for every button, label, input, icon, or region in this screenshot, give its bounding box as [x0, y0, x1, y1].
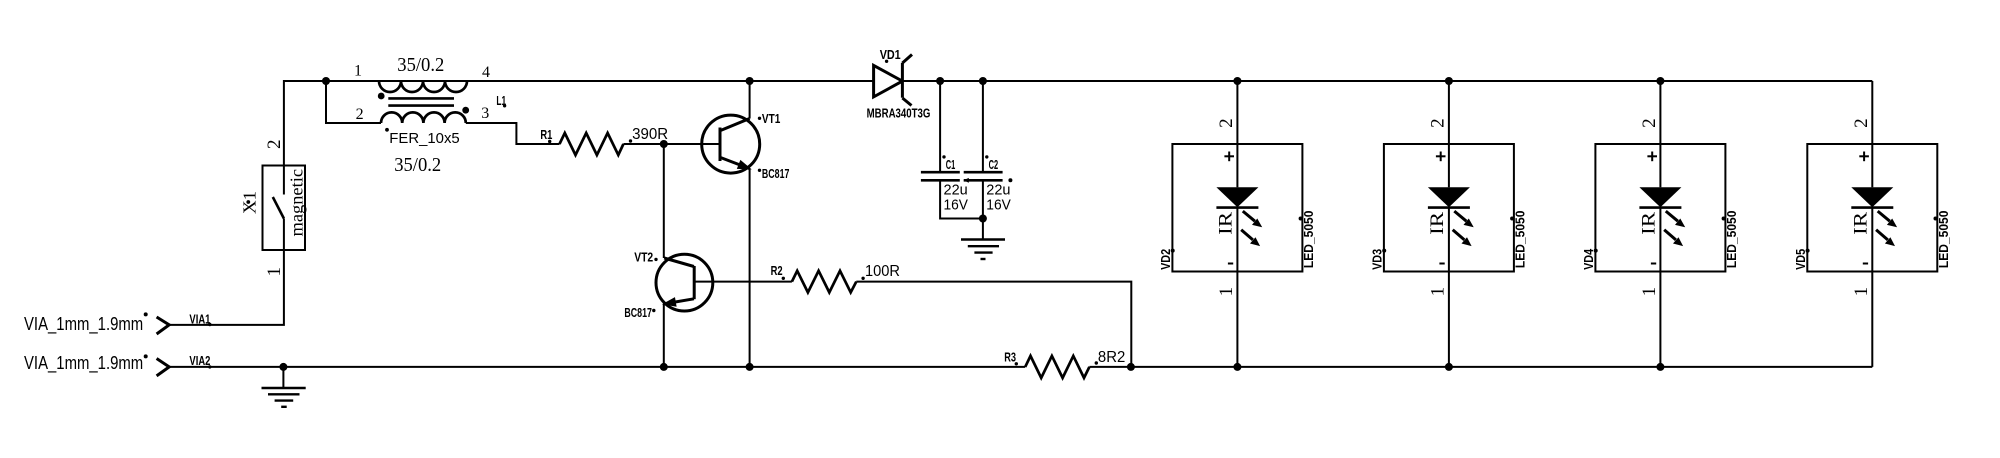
junction C1 at top rail [936, 77, 944, 85]
svg-text:IR: IR [1215, 212, 1236, 235]
LED module VD5 top connection [1871, 81, 1873, 144]
transformer L1 core [388, 98, 454, 105]
refdes X1 [240, 191, 260, 214]
svg-text:LED_5050: LED_5050 [1724, 211, 1739, 269]
wire cathode of VD3 [1448, 208, 1450, 272]
refdes C1 [942, 155, 955, 172]
svg-text:VIA1: VIA1 [189, 312, 210, 327]
junction VD3 at bottom rail [1445, 363, 1453, 371]
plus mark of VD5 [1859, 152, 1869, 162]
svg-text:2: 2 [1216, 118, 1237, 128]
value BC817 of VT2 [624, 305, 655, 320]
refdes VD5 [1793, 249, 1810, 270]
LED module VD3 body [1384, 144, 1514, 272]
junction C2 at top rail [979, 77, 987, 85]
wire VD5 to bottom rail [1871, 272, 1873, 367]
wire VD3 to bottom rail [1448, 272, 1450, 367]
wire to transformer pin 2 [326, 81, 381, 123]
wire VD2 to bottom rail [1236, 272, 1238, 367]
plus mark of VD3 [1436, 152, 1446, 162]
connector VIA2 pin arrow [157, 359, 170, 376]
svg-text:VIA2: VIA2 [189, 353, 210, 368]
value LED_5050 of VD3 [1510, 211, 1527, 269]
value FER_10x5 [385, 128, 460, 147]
wire VT2 emitter down to bottom rail [663, 304, 665, 367]
svg-text:BC817: BC817 [624, 305, 652, 320]
svg-text:R2: R2 [771, 263, 783, 278]
LED module VD3 top connection [1445, 77, 1453, 85]
svg-text:2: 2 [1851, 118, 1872, 128]
svg-text:C2: C2 [989, 157, 999, 172]
svg-text:2: 2 [356, 106, 364, 123]
value LED_5050 of VD5 [1934, 211, 1951, 269]
svg-text:LED_5050: LED_5050 [1936, 211, 1951, 269]
connector VIA1 label VIA_1mm_1.9mm [24, 312, 148, 335]
svg-text:FER_10x5: FER_10x5 [389, 130, 459, 147]
refdes C2 [985, 155, 998, 172]
LED cathode bar of VD3 [1428, 206, 1470, 209]
svg-text:VD1: VD1 [880, 47, 901, 62]
svg-text:1: 1 [354, 62, 362, 79]
value LED_5050 of VD2 [1299, 211, 1316, 269]
value LED_5050 of VD4 [1722, 211, 1739, 269]
wire X1 pin2 up and top rail to VD1 anode [284, 81, 874, 166]
junction capacitor ground node [979, 215, 987, 223]
wire transformer pin 4 to top rail after diode [902, 80, 1872, 82]
LED module VD5 body [1807, 144, 1937, 272]
svg-text:1: 1 [1851, 287, 1872, 297]
svg-text:1: 1 [1428, 287, 1449, 297]
junction VT2 emitter at bottom rail [660, 363, 668, 371]
value 390R [629, 126, 668, 143]
wire bottom rail left segment [169, 366, 1025, 368]
svg-text:IR: IR [1850, 212, 1871, 235]
wire bottom rail right segment [1089, 366, 1872, 368]
node junction R1 output [660, 140, 668, 148]
svg-text:2: 2 [1639, 118, 1660, 128]
LED triangle of VD4 [1639, 187, 1681, 207]
refdes VD1 [880, 47, 901, 63]
svg-text:8R2: 8R2 [1098, 349, 1125, 366]
refdes R1 [540, 127, 552, 143]
value 22u 16V of C1 [944, 182, 969, 214]
refdes R3 [1004, 350, 1018, 366]
svg-text:VD2: VD2 [1158, 249, 1173, 270]
svg-text:3: 3 [481, 105, 489, 122]
refdes L1 [496, 93, 506, 108]
LED cathode bar of VD2 [1216, 206, 1258, 209]
value BC817 of VT1 [758, 166, 790, 181]
svg-text:C1: C1 [946, 157, 956, 172]
svg-text:VIA_1mm_1.9mm: VIA_1mm_1.9mm [24, 314, 143, 335]
value 22u 16V of C2 [986, 182, 1011, 214]
capacitor C2 pin dot [1008, 178, 1012, 182]
transformer L1 secondary winding pins 2-3 [381, 112, 466, 123]
LED triangle of VD5 [1851, 187, 1893, 207]
capacitor C2 polarity arrow [964, 178, 972, 183]
refdes VT2 [634, 249, 658, 264]
connector VIA2 label VIA_1mm_1.9mm [24, 353, 148, 374]
refdes VD2 [1158, 249, 1175, 270]
svg-text:R3: R3 [1004, 350, 1016, 365]
wire transformer pin 3 to R1 [466, 123, 560, 144]
svg-text:VD5: VD5 [1793, 249, 1808, 270]
connector VIA1 pin arrow [157, 317, 170, 334]
minus mark of VD3 [1439, 263, 1444, 265]
svg-text:magnetic: magnetic [287, 169, 307, 237]
refdes VT1 [758, 111, 781, 126]
refdes VD3 [1370, 249, 1387, 270]
svg-text:BC817: BC817 [762, 166, 790, 181]
svg-text:35/0.2: 35/0.2 [397, 54, 444, 76]
wire top rail to C1 [939, 81, 941, 172]
wire C1 bottom to ground node [940, 180, 983, 218]
wire anode of VD5 [1871, 144, 1873, 187]
resistor R3 [1025, 356, 1089, 378]
svg-text:2: 2 [1428, 118, 1449, 128]
wire R1 to VT1 base [623, 143, 720, 145]
wire C2 bottom to ground node [982, 180, 984, 218]
junction VT1 collector at top rail [746, 77, 754, 85]
value 8R2 [1095, 349, 1126, 366]
LED triangle of VD2 [1216, 187, 1258, 207]
LED module VD2 body [1172, 144, 1302, 272]
reed switch X1 body [263, 166, 306, 251]
minus mark of VD4 [1651, 263, 1656, 265]
svg-text:35/0.2: 35/0.2 [394, 154, 441, 176]
transformer polarity dot primary [378, 93, 385, 100]
emission arrows of VD3 [1453, 211, 1474, 246]
svg-text:VT2: VT2 [634, 249, 653, 264]
plus mark of VD2 [1224, 152, 1234, 162]
svg-text:IR: IR [1638, 212, 1659, 235]
LED cathode bar of VD4 [1639, 206, 1681, 209]
junction VT1 emitter at bottom rail [746, 363, 754, 371]
svg-text:100R: 100R [865, 263, 900, 280]
svg-text:R1: R1 [540, 127, 552, 142]
net name VIA1 [189, 312, 211, 327]
junction VD4 at bottom rail [1656, 363, 1664, 371]
junction at ground on bottom rail [279, 363, 287, 371]
LED cathode bar of VD5 [1851, 206, 1893, 209]
svg-text:MBRA340T3G: MBRA340T3G [867, 106, 931, 121]
LED module VD4 top connection [1656, 77, 1664, 85]
svg-text:VD3: VD3 [1370, 249, 1385, 270]
svg-text:4: 4 [482, 64, 490, 81]
LED module VD2 top connection [1233, 77, 1241, 85]
svg-text:LED_5050: LED_5050 [1301, 211, 1316, 269]
transistor VT1 [702, 81, 760, 173]
wire anode of VD2 [1236, 144, 1238, 187]
capacitor C1 [921, 172, 960, 180]
LED triangle of VD3 [1428, 187, 1470, 207]
svg-text:16V: 16V [944, 196, 969, 213]
resistor R1 [560, 133, 624, 155]
emission arrows of VD2 [1241, 211, 1262, 246]
wire top rail to C2 [982, 81, 984, 172]
LED module VD4 body [1595, 144, 1725, 272]
minus mark of VD2 [1228, 263, 1233, 265]
diode VD1 [874, 55, 912, 106]
wire VT2 base to R2 [694, 281, 792, 283]
svg-text:1: 1 [1216, 287, 1237, 297]
emission arrows of VD5 [1876, 211, 1897, 246]
refdes R2 [771, 263, 785, 280]
wire cathode of VD2 [1236, 208, 1238, 272]
transformer L1 primary winding pins 1-4 [379, 81, 467, 92]
svg-text:1: 1 [264, 267, 285, 277]
wire VT1 emitter down to bottom rail [749, 169, 751, 367]
emission arrows of VD4 [1664, 211, 1685, 246]
ground at capacitors [961, 219, 1005, 260]
plus mark of VD4 [1647, 152, 1657, 162]
wire node A down to VT2 collector [663, 144, 665, 258]
net name VIA2 [189, 353, 211, 369]
wire anode of VD3 [1448, 144, 1450, 187]
svg-text:1: 1 [1639, 287, 1660, 297]
wire cathode of VD4 [1659, 208, 1661, 272]
svg-text:IR: IR [1427, 212, 1448, 235]
svg-text:VIA_1mm_1.9mm: VIA_1mm_1.9mm [24, 353, 143, 374]
junction at transformer input split [322, 77, 330, 85]
svg-text:2: 2 [264, 140, 285, 150]
minus mark of VD5 [1863, 263, 1868, 265]
junction VD2 at bottom rail [1233, 363, 1241, 371]
junction feedback at bottom rail [1127, 363, 1135, 371]
svg-text:LED_5050: LED_5050 [1512, 211, 1527, 269]
transformer polarity dot secondary [462, 107, 469, 114]
value 100R [861, 263, 900, 280]
reed switch X1 contacts [273, 166, 284, 251]
capacitor C2 [964, 172, 1003, 180]
wire anode of VD4 [1659, 144, 1661, 187]
ground [262, 367, 306, 407]
transistor VT2 [656, 254, 713, 311]
refdes VD4 [1581, 248, 1598, 270]
wire VIA1 to X1 pin1 [169, 250, 284, 325]
resistor R2 [792, 271, 856, 293]
wire cathode of VD5 [1871, 208, 1873, 272]
wire VD4 to bottom rail [1659, 272, 1661, 367]
svg-text:16V: 16V [986, 196, 1011, 213]
wire R2 to feedback node [856, 282, 1131, 367]
svg-text:VT1: VT1 [762, 111, 780, 126]
